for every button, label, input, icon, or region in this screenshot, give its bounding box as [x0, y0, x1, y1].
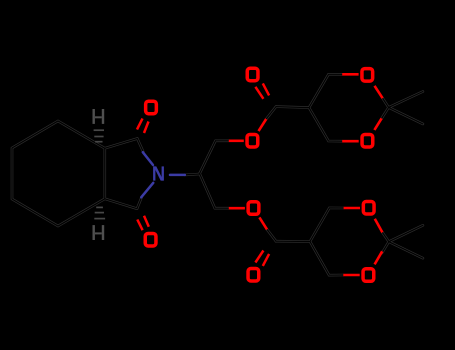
- top ring O1 label: [362, 134, 373, 147]
- top ester O-C(=O) red part: [259, 119, 267, 131]
- imide C3=O double bond (red): [137, 216, 149, 230]
- top ester C=O double bond: [255, 83, 269, 98]
- bottom ester O-CH2 red part: [229, 207, 245, 210]
- bottom ester C=O double bond: [255, 251, 269, 266]
- bottom ring O3' label: [363, 269, 374, 282]
- top ring O3 red bond parts: [342, 74, 382, 98]
- bottom ester O-C(=O) red part: [259, 217, 267, 229]
- H label bottom: [93, 225, 105, 240]
- imide O top label: [146, 101, 157, 114]
- imide C1=O double bond (red): [137, 119, 149, 134]
- N label: [153, 166, 164, 180]
- H label top: [93, 109, 105, 124]
- hashed wedge bottom (C3a to H): [94, 207, 105, 218]
- top ring O1 red bond parts: [342, 118, 381, 141]
- imide blue bonds near N: [141, 152, 185, 197]
- bottom ester carbonyl O label: [248, 269, 259, 282]
- top ester carbonyl O label: [247, 68, 258, 81]
- bottom ring O1' label: [363, 202, 374, 215]
- N-CH blue part: [170, 174, 185, 177]
- imide O bottom label: [145, 233, 156, 246]
- bottom ester O label: [248, 202, 259, 215]
- N-C3 blue part: [141, 183, 153, 198]
- skeleton: black core pass: [12, 74, 423, 275]
- bottom ring O1' red bond parts: [344, 208, 383, 232]
- skeleton: gray halo pass: [12, 74, 423, 275]
- bottom ring O3' red bond parts: [343, 251, 382, 275]
- hashed wedge top (C7a to H): [94, 130, 104, 142]
- N-C1 blue part: [143, 152, 153, 165]
- top ester O-CH2 red part: [229, 140, 244, 143]
- top ring O3 label: [362, 69, 373, 82]
- top ester O label: [247, 134, 258, 147]
